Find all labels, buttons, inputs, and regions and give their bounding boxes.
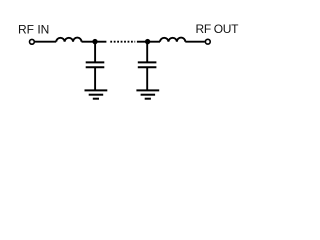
wire C1 to ground bbox=[94, 67, 96, 90]
wire stub left of node 2 bbox=[137, 41, 148, 43]
wire node 2 down to C2 bbox=[146, 42, 148, 62]
capacitor C2 bbox=[138, 62, 157, 67]
wire C2 to ground bbox=[146, 67, 148, 90]
ground symbol 2 bbox=[136, 90, 159, 98]
node junction dot 1 bbox=[92, 39, 97, 44]
wire L2 to output bbox=[185, 41, 205, 43]
capacitor C1 bbox=[86, 62, 105, 67]
dotted wire (omitted filter sections) bbox=[110, 41, 135, 43]
inductor L1 bbox=[56, 38, 81, 42]
node junction dot 2 bbox=[145, 39, 150, 44]
wire node 1 down to C1 bbox=[94, 42, 96, 62]
inductor L2 bbox=[160, 38, 185, 42]
wire input to L1 bbox=[35, 41, 56, 43]
wire L1 to node 1 bbox=[82, 41, 96, 43]
terminal RF OUT port circle bbox=[205, 39, 210, 44]
svg-text:RF IN: RF IN bbox=[18, 23, 49, 37]
wire stub right of node 1 bbox=[95, 41, 106, 43]
wire node 2 to L2 bbox=[148, 41, 160, 43]
ground symbol 1 bbox=[85, 90, 108, 98]
terminal RF IN port circle bbox=[30, 39, 35, 44]
svg-text:RF OUT: RF OUT bbox=[196, 22, 240, 36]
